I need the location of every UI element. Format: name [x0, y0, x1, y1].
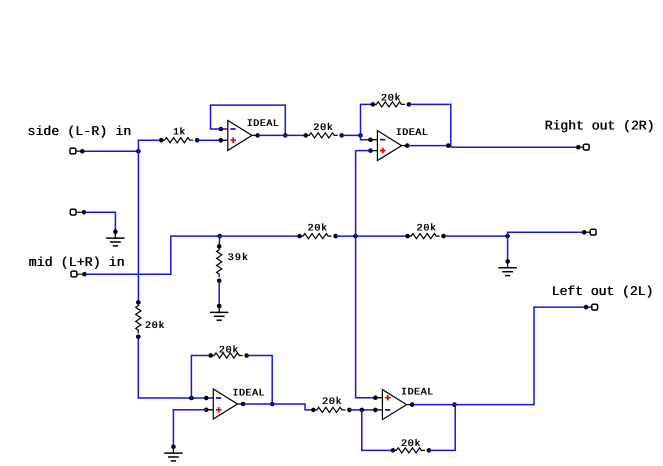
junction: U1 feedback at output — [283, 133, 288, 138]
svg-text:Right out (2R): Right out (2R) — [545, 119, 655, 134]
wire: middle row to 20k — [220, 235, 300, 237]
wire: mid bus down to U4 + input — [355, 151, 357, 237]
op-amp U3 (IDEAL) — [213, 389, 237, 419]
wire: bus to op-amp U3 - input — [138, 337, 207, 398]
resistor R2 20k — [306, 133, 338, 138]
wire: bus up-corner to 1k — [138, 140, 161, 151]
wire: U3 feedback riser — [191, 356, 210, 399]
resistor R5 20k (middle row right) — [408, 234, 440, 239]
junction: U4 output / feedback — [452, 402, 457, 407]
wire: 1k to op-amp U1 + input — [197, 139, 221, 141]
wire: U1 output to 20k — [258, 134, 306, 136]
svg-text:20k: 20k — [381, 92, 401, 104]
wire: U4 output to Left out terminal — [412, 307, 586, 405]
svg-text:20k: 20k — [145, 320, 165, 332]
wire: unused input to ground — [86, 212, 116, 231]
ground G3 — [505, 259, 510, 264]
wire: 39k branch from middle row — [218, 236, 221, 246]
junction: U4 - input / feedback — [360, 408, 365, 413]
ground G2 — [217, 304, 222, 309]
junction: node A (U2 - input / feedback) — [358, 133, 363, 138]
junction: middle row / ground stub — [505, 234, 510, 239]
op-amp U4 (IDEAL, + on top) — [382, 390, 406, 420]
resistor R8 20k (U3 feedback) — [211, 353, 243, 358]
ground G1 — [113, 229, 118, 234]
svg-text:20k: 20k — [307, 222, 327, 234]
svg-text:IDEAL: IDEAL — [396, 128, 428, 139]
svg-text:20k: 20k — [313, 122, 333, 134]
svg-text:mid (L+R) in: mid (L+R) in — [29, 255, 125, 270]
ground G4 — [171, 444, 176, 449]
wire: stub down to ground — [507, 236, 509, 261]
junction: side input / bus — [136, 149, 141, 154]
wire: R5 to ground-stub junction — [444, 235, 508, 237]
wire: mid bus middle to bottom — [356, 236, 376, 398]
wire: U2 output to feedback junction — [408, 145, 451, 147]
wire: U2 feedback riser — [361, 104, 373, 135]
wire: U1 feedback loop output to - input — [211, 105, 286, 135]
wire: R10 to U4 output — [429, 405, 455, 451]
wire: side input to bus — [84, 150, 138, 152]
svg-text:39k: 39k — [228, 252, 248, 264]
op-amp U2 (IDEAL) — [377, 131, 401, 161]
output terminal: Left out (2L) — [584, 305, 589, 310]
svg-text:side (L-R) in: side (L-R) in — [27, 124, 131, 139]
svg-text:IDEAL: IDEAL — [401, 388, 433, 399]
input terminal: mid (L+R) in — [71, 271, 77, 277]
wire: U4 feedback down-loop — [362, 410, 393, 451]
svg-text:Left out (2L): Left out (2L) — [552, 284, 654, 299]
op-amp U1 (IDEAL) — [228, 120, 252, 150]
resistor R6 39k — [217, 246, 222, 277]
svg-text:20k: 20k — [219, 344, 239, 356]
junction: U3 output / feedback — [270, 402, 275, 407]
wire: node A down to U2 - input — [361, 135, 372, 139]
junction: mid bus / middle row — [353, 234, 358, 239]
wire: R4 to mid bus junction — [336, 235, 356, 237]
svg-text:20k: 20k — [416, 223, 436, 235]
wire: R8 to U3 output — [247, 356, 272, 405]
svg-text:1k: 1k — [173, 127, 186, 139]
wire: R9 to U4 - input — [350, 409, 376, 411]
wire: mid input to middle row — [86, 236, 220, 274]
svg-text:IDEAL: IDEAL — [247, 119, 279, 130]
resistor R4 20k (middle row left) — [300, 234, 332, 239]
wire: side bus down — [137, 151, 139, 302]
output terminal: middle row — [582, 230, 587, 235]
wire: U3 + input to ground — [173, 410, 207, 447]
wire: R3 to U2 output — [409, 104, 451, 147]
svg-text:20k: 20k — [322, 396, 342, 408]
wire: middle row to 20k (R5) — [356, 235, 408, 237]
wire: 39k to ground — [218, 281, 220, 306]
resistor R9 20k (U3 to U4) — [313, 407, 345, 412]
wire: U3 output to R9 — [243, 404, 313, 410]
input terminal: side (L-R) in — [70, 148, 76, 154]
wire: jog up to middle output terminal — [508, 232, 585, 236]
wire: U2 output to Right out terminal — [451, 146, 579, 148]
wire: R2 to node A — [342, 134, 361, 136]
output terminal: Right out (2R) — [576, 145, 581, 150]
junction: U2 output / feedback — [446, 143, 451, 148]
resistor R1 1k — [161, 138, 193, 143]
junction: 39k tap on middle row — [217, 234, 222, 239]
wire: U2 + input from bus — [356, 150, 372, 152]
resistor R7 20k (bus) — [136, 302, 141, 333]
resistor R3 20k (U2 feedback) — [373, 102, 405, 107]
svg-text:20k: 20k — [401, 438, 421, 450]
junction: U3 feedback at - input — [189, 396, 194, 401]
resistor R10 20k (U4 feedback) — [393, 448, 425, 453]
input terminal: unused (grounded) — [70, 209, 76, 215]
svg-text:IDEAL: IDEAL — [232, 389, 264, 400]
